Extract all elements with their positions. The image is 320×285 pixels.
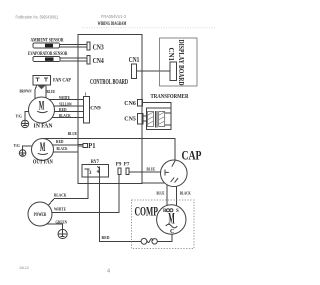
wire evaporator sensor to CN4	[60, 58, 87, 61]
evaporator sensor body	[33, 57, 60, 62]
compressor terminal circles	[167, 209, 170, 212]
wire out fan black to P1	[53, 151, 78, 153]
wire in fan red	[54, 111, 83, 113]
display board CN1 connector	[170, 62, 177, 81]
svg-text:P1: P1	[88, 141, 95, 150]
compressor dashed enclosure	[132, 200, 195, 249]
compressor motor circle	[157, 205, 186, 234]
wire P7 to capacitor	[129, 171, 160, 173]
svg-text:P9: P9	[116, 162, 122, 167]
transformer core	[155, 111, 157, 128]
transformer secondary winding	[159, 112, 165, 127]
svg-text:CN1: CN1	[167, 48, 174, 62]
svg-text:BLUE: BLUE	[147, 167, 156, 172]
svg-text:68-12: 68-12	[20, 265, 30, 270]
svg-text:CONTROL BOARD: CONTROL BOARD	[90, 79, 128, 86]
svg-text:YELLOW: YELLOW	[59, 101, 72, 106]
svg-text:CN9: CN9	[90, 106, 101, 112]
ground symbol power	[58, 229, 67, 238]
svg-text:S: S	[176, 209, 179, 214]
wire board to capacitor lower	[142, 182, 165, 184]
overload protector	[141, 238, 157, 244]
connector CN4	[87, 56, 90, 64]
svg-text:P7: P7	[124, 162, 130, 167]
svg-text:EVAPORATOR SENSOR: EVAPORATOR SENSOR	[28, 52, 68, 57]
svg-text:CN4: CN4	[93, 57, 105, 65]
relay RY7 box	[82, 165, 109, 178]
transformer outer loop	[147, 108, 171, 130]
ground symbol out fan	[19, 150, 26, 157]
power plug circle	[28, 202, 52, 226]
wire compressor C to overload	[157, 234, 172, 242]
wire power white to P9	[52, 175, 119, 213]
svg-text:GREEN: GREEN	[56, 220, 68, 225]
motor IN FAN	[29, 97, 55, 123]
svg-text:OUT FAN: OUT FAN	[33, 160, 54, 166]
relay pin 3	[85, 169, 90, 177]
motor OUT FAN	[32, 139, 54, 161]
wire in fan black	[52, 117, 83, 119]
svg-text:CN3: CN3	[93, 44, 105, 52]
svg-text:FRA054VU1-3: FRA054VU1-3	[101, 14, 127, 19]
wire out fan blue to cap	[44, 138, 175, 160]
svg-text:BLACK: BLACK	[180, 191, 192, 196]
svg-text:BLACK: BLACK	[57, 146, 69, 151]
svg-text:BROWN: BROWN	[20, 89, 32, 94]
svg-text:1: 1	[85, 92, 87, 97]
svg-text:CN5: CN5	[124, 115, 136, 122]
svg-text:M: M	[168, 211, 175, 228]
svg-text:RED: RED	[59, 107, 67, 112]
svg-text:BLUE: BLUE	[47, 89, 56, 94]
transformer primary winding	[148, 112, 154, 127]
wire out fan earth	[23, 146, 32, 150]
connector P1	[78, 143, 88, 147]
capacitor circle	[161, 160, 188, 187]
svg-text:BLUE: BLUE	[157, 191, 165, 196]
svg-text:WIRING DIAGRAM: WIRING DIAGRAM	[98, 22, 127, 27]
svg-text:WHITE: WHITE	[54, 207, 66, 212]
connector CN3	[87, 42, 90, 50]
wire capacitor to comp blue	[166, 185, 168, 206]
svg-text:FAN CAP: FAN CAP	[53, 78, 71, 83]
ambient sensor body	[33, 43, 60, 48]
svg-text:DISPLAY BOARD: DISPLAY BOARD	[177, 40, 185, 86]
svg-text:Y/G: Y/G	[14, 143, 21, 148]
fan cap terminals	[35, 78, 48, 81]
wire fan cap brown lead	[35, 85, 37, 99]
capacitor terminal marks	[165, 161, 178, 183]
wire in fan earth	[25, 112, 29, 121]
svg-text:COMP: COMP	[135, 205, 159, 219]
svg-text:M: M	[39, 98, 45, 113]
wire CN6 to transformer	[143, 103, 172, 108]
connector CN9	[84, 97, 90, 124]
svg-text:CN6: CN6	[124, 100, 136, 107]
svg-text:RED: RED	[102, 235, 110, 240]
display board outline	[160, 38, 198, 86]
svg-text:Y/G: Y/G	[16, 114, 23, 119]
svg-text:BLUE: BLUE	[68, 131, 77, 136]
header rule	[82, 27, 216, 29]
wire out fan red	[53, 144, 78, 146]
svg-text:RED: RED	[56, 139, 64, 144]
wire power black to relay	[49, 177, 88, 205]
wire fan cap blue lead	[45, 85, 47, 98]
relay pin 4	[97, 166, 99, 177]
wire capacitor to comp black	[176, 186, 178, 206]
wire ambient sensor to CN3	[60, 44, 87, 47]
svg-text:CAP: CAP	[182, 148, 202, 163]
svg-text:4: 4	[107, 269, 110, 275]
svg-text:POWER: POWER	[34, 213, 47, 218]
wire relay pin4 to overload	[100, 177, 142, 241]
wire in fan yellow	[54, 105, 84, 107]
svg-text:BLACK: BLACK	[59, 113, 71, 118]
svg-text:M: M	[40, 139, 46, 154]
svg-text:Publication No. 5995438911: Publication No. 5995438911	[16, 15, 59, 20]
wire CN1 to display board	[137, 70, 171, 72]
svg-text:CN1: CN1	[129, 56, 140, 64]
svg-text:TRANSFORMER: TRANSFORMER	[151, 93, 189, 100]
svg-text:BLACK: BLACK	[54, 192, 67, 197]
fan cap lead wedge	[38, 85, 46, 89]
svg-text:IN FAN: IN FAN	[34, 123, 53, 130]
fan cap box	[33, 76, 50, 86]
wire in fan white	[49, 99, 83, 101]
wire power green to ground	[47, 224, 63, 229]
wire CN5 to transformer primary	[143, 116, 148, 121]
svg-text:WHITE: WHITE	[59, 95, 70, 100]
ground symbol in fan	[21, 120, 28, 127]
wire secondary stubs	[165, 113, 171, 125]
control board outline	[78, 35, 142, 184]
